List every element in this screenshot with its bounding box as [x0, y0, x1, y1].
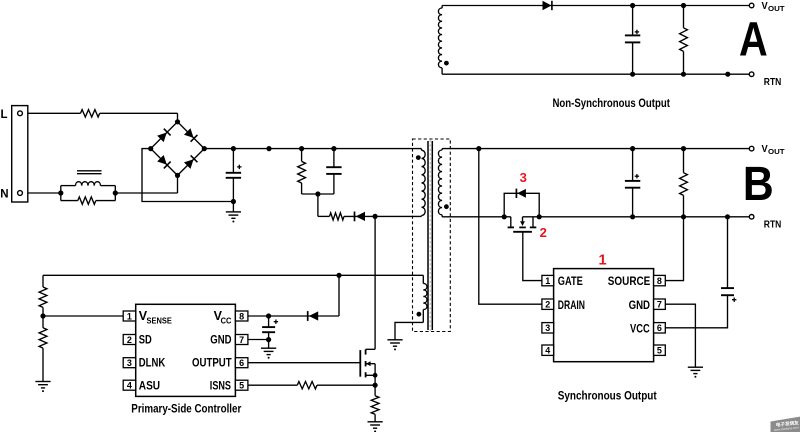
transformer T1 core [428, 141, 432, 330]
node bulk-top [231, 146, 236, 151]
terminal VOUT (B) [749, 146, 754, 151]
svg-text:SD: SD [139, 334, 152, 346]
node snub-C-top [331, 146, 336, 151]
capacitor C_vcc2 [721, 217, 734, 295]
svg-text:CC: CC [221, 315, 232, 325]
node B-bot-cap [630, 214, 635, 219]
resistor R_clamp [318, 213, 375, 220]
winding secondary S1 [438, 150, 442, 215]
pin 6 box U1 [235, 358, 248, 368]
terminal RTN (B) [749, 215, 754, 220]
node Q2 source [537, 214, 542, 219]
ground GND2 (aux) [387, 340, 402, 351]
svg-text:7: 7 [239, 335, 244, 345]
node A-top-cap [630, 3, 635, 8]
svg-text:6: 6 [657, 323, 662, 333]
svg-text:A: A [739, 13, 768, 67]
pin 2 box U2 [542, 299, 554, 309]
svg-text:2: 2 [127, 335, 132, 345]
node isns [373, 383, 378, 388]
diode D_A rectifier [543, 1, 552, 10]
bridge rectifier BR1 diamond [151, 122, 205, 176]
bridge diode D4 (bottom-right) [184, 155, 198, 169]
node rail-a [266, 146, 271, 151]
svg-text:N: N [0, 188, 8, 200]
node bridge-bottom [175, 173, 180, 178]
resistor R_damp across choke [61, 197, 116, 204]
resistor R_B load [680, 149, 688, 217]
svg-text:VCC: VCC [630, 323, 650, 335]
svg-text:1: 1 [127, 311, 132, 321]
svg-text:3: 3 [127, 358, 132, 368]
node A-bot-aux [725, 72, 730, 77]
resistor R_isns [297, 382, 317, 389]
capacitor C_B output cap [625, 149, 640, 217]
wire : ISNS pin 5 line [248, 384, 375, 386]
inductor L1 core lines [77, 170, 102, 172]
wire : W_A top to VOUT terminal [442, 5, 749, 7]
svg-text:SENSE: SENSE [147, 315, 173, 325]
wire : L to bridge top [28, 112, 81, 114]
pin 8 box U2 [654, 275, 666, 285]
bridge diode D2 (top-right) [184, 128, 198, 142]
svg-text:ISNS: ISNS [210, 380, 231, 392]
wire : OUTPUT pin 6 to Q1 gate [248, 362, 360, 364]
svg-text:DRAIN: DRAIN [558, 300, 585, 312]
wire : VCC pin 6 to C_vcc2 [665, 295, 727, 328]
winding W_aux polarity dot [417, 312, 422, 317]
svg-text:5: 5 [239, 381, 244, 391]
svg-text:2: 2 [540, 225, 547, 240]
pin 3 box U2 [542, 323, 554, 333]
svg-text:2: 2 [545, 300, 550, 310]
winding primary P1 [422, 150, 426, 215]
resistor R_div1 [39, 275, 47, 328]
svg-text:B: B [743, 156, 774, 210]
wire : GND pin 7 [248, 339, 269, 341]
svg-text:Non-Synchronous Output: Non-Synchronous Output [552, 96, 670, 110]
node bridge-left [148, 146, 153, 151]
winding S1 polarity dot [444, 204, 449, 209]
node sec-drain-tap [476, 146, 481, 151]
winding W_A polarity dot [444, 61, 449, 66]
svg-text:4: 4 [545, 346, 550, 356]
node Q1 source-body [373, 373, 378, 378]
pin 1 box U2 [542, 275, 554, 285]
node filter-right [113, 190, 118, 195]
diode D_vcc [308, 311, 319, 321]
svg-text:V: V [762, 0, 768, 12]
node B-bot-vcccap [725, 214, 730, 219]
bridge diode D1 (left-top) [157, 129, 171, 143]
pin 7 box U1 [235, 335, 248, 345]
watermark [771, 417, 800, 432]
pin 7 box U2 [654, 299, 666, 309]
node aux-vcc-tap [336, 273, 341, 278]
node A-top-res [681, 3, 686, 8]
op-amp U1 primary-side controller box [136, 304, 236, 396]
svg-text:OUT: OUT [768, 147, 785, 156]
pin 5 box U2 [654, 345, 666, 355]
resistor R_div2 [39, 328, 47, 382]
wire : secondary bottom / RTN rail [442, 216, 511, 218]
pin 4 box U1 [123, 380, 136, 390]
svg-text:6: 6 [239, 358, 244, 368]
svg-text:V: V [762, 143, 768, 155]
winding auxiliary W_aux [423, 283, 427, 309]
wire : W_A bottom to RTN terminal [442, 73, 749, 75]
svg-text:GND: GND [629, 300, 650, 312]
wire : filter to bridge bottom [115, 192, 177, 194]
resistor R_snub [298, 149, 306, 194]
svg-text:OUTPUT: OUTPUT [192, 358, 232, 370]
svg-text:Primary-Side Controller: Primary-Side Controller [131, 402, 241, 416]
pin 3 box U1 [123, 358, 136, 368]
ground GND1 (bulk) [226, 212, 241, 223]
resistor R_sense [371, 385, 379, 422]
svg-text:OUT: OUT [768, 4, 785, 13]
node snub-bottom [315, 191, 320, 196]
resistor R_A load [680, 6, 688, 75]
svg-text:RTN: RTN [764, 76, 782, 88]
svg-text:GATE: GATE [558, 276, 583, 288]
svg-text:Synchronous Output: Synchronous Output [558, 388, 657, 402]
diode D_body of Q2 [504, 193, 539, 217]
svg-text:3: 3 [545, 323, 550, 333]
node filter-left [58, 190, 63, 195]
capacitor C_vcc [262, 316, 275, 340]
node B-top-res [681, 146, 686, 151]
ground GND6 (sync) [688, 367, 703, 378]
wire : divider to VSENSE pin 1 [43, 315, 123, 317]
winding P1 polarity dot [416, 155, 421, 160]
Section A : non-synchronous output winding W_A [438, 8, 442, 68]
svg-text:1: 1 [545, 276, 550, 286]
capacitor C_snub [326, 149, 341, 194]
svg-text:DLNK: DLNK [139, 358, 166, 370]
svg-text:8: 8 [657, 276, 662, 286]
ground GND3 (divider) [35, 382, 50, 393]
bridge diode D3 (left-bottom) [157, 155, 171, 169]
svg-text:7: 7 [657, 300, 662, 310]
input connector J1 [12, 106, 28, 202]
svg-text:4: 4 [127, 381, 132, 391]
wire : aux top / VSENSE line [43, 274, 423, 276]
svg-text:8: 8 [239, 311, 244, 321]
pin 1 box U1 [123, 311, 136, 321]
svg-text:5: 5 [657, 346, 662, 356]
wire : N to filter [28, 192, 61, 194]
node bridge-right [202, 146, 207, 151]
ground GND5 (sense) [368, 422, 383, 432]
svg-text:GND: GND [210, 334, 231, 346]
pin 5 box U1 [235, 380, 248, 390]
transistor Q2 sync MOSFET [508, 217, 537, 232]
terminal RTN (A) [749, 72, 754, 77]
pin 8 box U1 [235, 311, 248, 321]
node gnd7 [266, 337, 271, 342]
node divider-mid [40, 313, 45, 318]
capacitor C_bulk [226, 149, 241, 202]
node bulk-bottom [231, 199, 236, 204]
svg-text:L: L [1, 109, 8, 121]
svg-text:1: 1 [598, 252, 606, 268]
transformer T1 dashed box [413, 139, 451, 332]
ground GND4 (controller) [261, 348, 276, 359]
wire : VCC pin 8 line [248, 315, 339, 317]
EMI filter : choke L1 with parallel resistor [60, 186, 62, 201]
wire : SOURCE pin 8 to RTN rail [665, 217, 683, 281]
wire : primary winding bottom [375, 215, 421, 217]
capacitor C_A output cap [625, 6, 640, 75]
wire : Q2 gate to GATE pin 1 [523, 232, 542, 281]
pin 4 box U2 [542, 345, 554, 355]
node vcc [266, 313, 271, 318]
op-amp U2 synchronous rectifier controller box [554, 269, 654, 362]
svg-text:SOURCE: SOURCE [608, 276, 651, 288]
wire : rectified positive rail [204, 148, 421, 150]
svg-text:RTN: RTN [764, 219, 782, 231]
node bridge-top [175, 119, 180, 124]
node primary-drain [373, 214, 378, 219]
wire : GND pin 7 to ground [665, 304, 695, 367]
node B-bot-res [681, 214, 686, 219]
svg-text:3: 3 [520, 170, 527, 185]
node B-top-cap [630, 146, 635, 151]
wire : secondary top rail to VOUT (B) [442, 148, 749, 150]
wire : aux bottom to ground [395, 322, 423, 339]
diode D_clamp [355, 212, 366, 222]
transistor Q1 primary MOSFET [360, 216, 375, 385]
node Q2 drain [502, 214, 507, 219]
svg-text:ASU: ASU [139, 380, 160, 392]
wire : DRAIN pin 2 line [479, 149, 542, 305]
terminal VOUT (A) [749, 3, 754, 8]
wire : snubber bottom join [302, 193, 334, 195]
pin 6 box U2 [654, 323, 666, 333]
wire : bridge negative rail [142, 149, 233, 202]
pin 2 box U1 [123, 335, 136, 345]
resistor F1 fuse [81, 110, 100, 117]
node A-bot-res [681, 72, 686, 77]
node snub-R-top [299, 146, 304, 151]
node A-bot-cap [630, 72, 635, 77]
inductor L1 winding [76, 182, 101, 186]
